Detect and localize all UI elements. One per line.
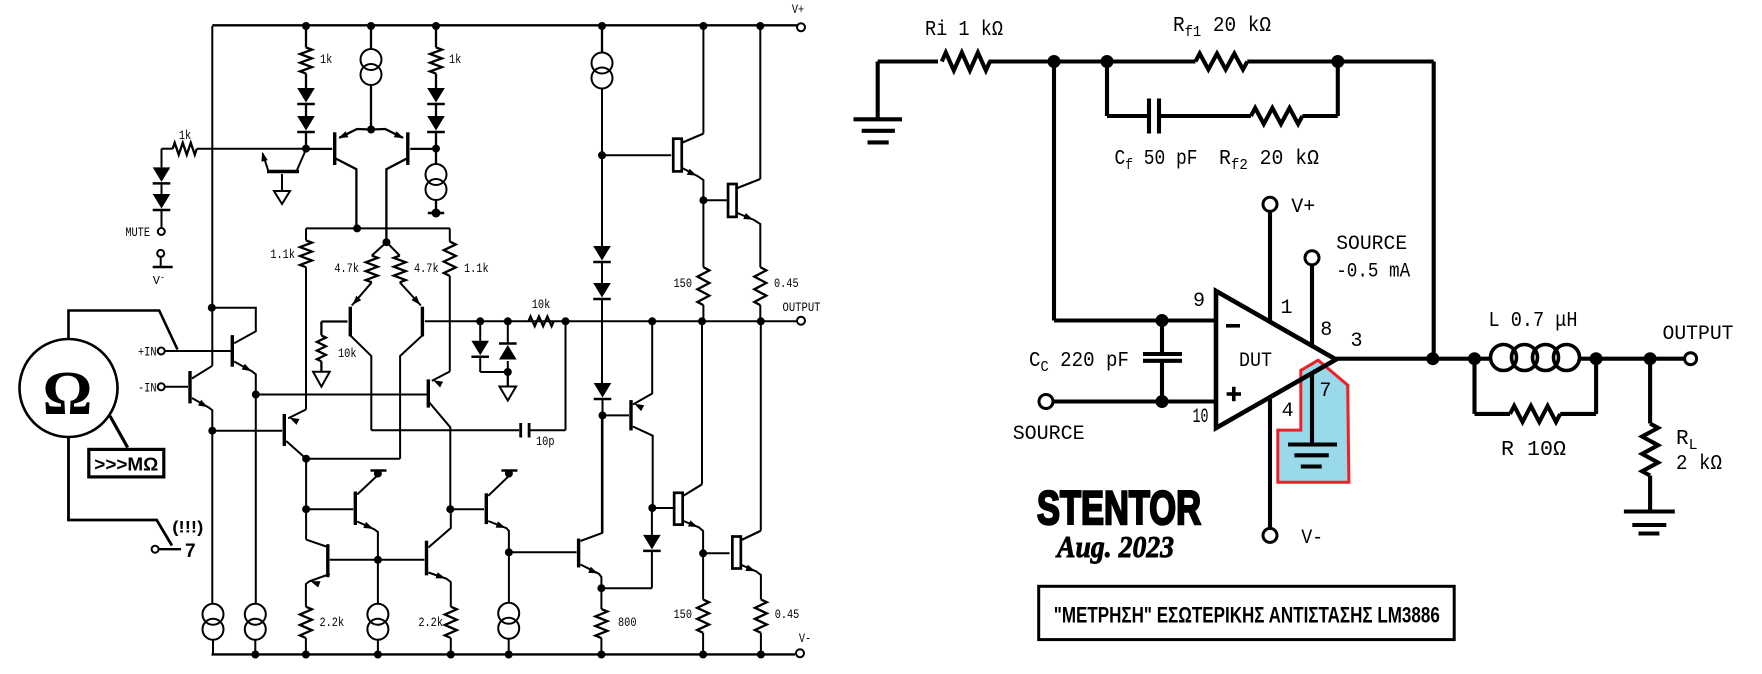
svg-text:OUTPUT: OUTPUT <box>1663 323 1734 346</box>
svg-text:V+: V+ <box>1291 196 1315 219</box>
svg-text:10k: 10k <box>532 297 551 312</box>
svg-text:150: 150 <box>674 607 693 622</box>
svg-text:0.45: 0.45 <box>775 607 800 622</box>
svg-text:1: 1 <box>1280 297 1292 320</box>
svg-text:MUTE: MUTE <box>125 225 150 240</box>
svg-text:(!!!): (!!!) <box>172 519 203 537</box>
svg-text:DUT: DUT <box>1239 350 1272 373</box>
svg-text:4.7k: 4.7k <box>414 261 439 276</box>
svg-text:7: 7 <box>1319 380 1331 403</box>
svg-text:150: 150 <box>674 276 693 291</box>
svg-text:Ω: Ω <box>43 360 93 428</box>
svg-text:-IN: -IN <box>138 381 157 395</box>
svg-text:1k: 1k <box>320 52 332 67</box>
svg-text:SOURCE: SOURCE <box>1336 233 1407 256</box>
svg-text:2 kΩ: 2 kΩ <box>1676 453 1722 476</box>
svg-text:1k: 1k <box>179 128 191 143</box>
svg-text:"ΜΕΤΡΗΣΗ" ΕΣΩΤΕΡΙΚΗΣ ΑΝΤΙΣΤΑΣΗ: "ΜΕΤΡΗΣΗ" ΕΣΩΤΕΡΙΚΗΣ ΑΝΤΙΣΤΑΣΗΣ LM3886 <box>1054 603 1440 628</box>
svg-text:V+: V+ <box>792 3 804 17</box>
svg-text:1.1k: 1.1k <box>464 261 489 276</box>
svg-text:2.2k: 2.2k <box>418 615 443 630</box>
svg-text:Aug. 2023: Aug. 2023 <box>1055 529 1174 564</box>
svg-text:V-: V- <box>1301 527 1323 550</box>
svg-text:>>>ΜΩ: >>>ΜΩ <box>94 455 158 475</box>
svg-text:7: 7 <box>185 541 196 562</box>
svg-text:800: 800 <box>618 615 637 630</box>
svg-text:10p: 10p <box>536 434 555 449</box>
svg-text:8: 8 <box>1320 319 1332 342</box>
svg-text:OUTPUT: OUTPUT <box>783 301 821 315</box>
svg-text:10: 10 <box>1193 406 1209 429</box>
svg-text:4: 4 <box>1282 400 1294 423</box>
svg-text:V-: V- <box>799 632 811 646</box>
svg-text:1k: 1k <box>449 52 461 67</box>
svg-text:4.7k: 4.7k <box>334 261 359 276</box>
svg-text:2.2k: 2.2k <box>320 615 345 630</box>
svg-text:1.1k: 1.1k <box>270 247 295 262</box>
svg-text:Ri 1 kΩ: Ri 1 kΩ <box>925 19 1003 42</box>
svg-text:9: 9 <box>1193 290 1205 313</box>
svg-text:10k: 10k <box>338 346 357 361</box>
svg-text:R 10Ω: R 10Ω <box>1501 439 1566 462</box>
svg-text:-0.5 mA: -0.5 mA <box>1336 261 1410 284</box>
svg-text:L 0.7 μH: L 0.7 μH <box>1489 310 1578 333</box>
svg-text:3: 3 <box>1350 330 1362 353</box>
svg-text:+IN: +IN <box>138 346 157 360</box>
svg-text:0.45: 0.45 <box>774 276 799 291</box>
svg-text:SOURCE: SOURCE <box>1013 423 1085 446</box>
svg-text:STENTOR: STENTOR <box>1037 481 1201 534</box>
